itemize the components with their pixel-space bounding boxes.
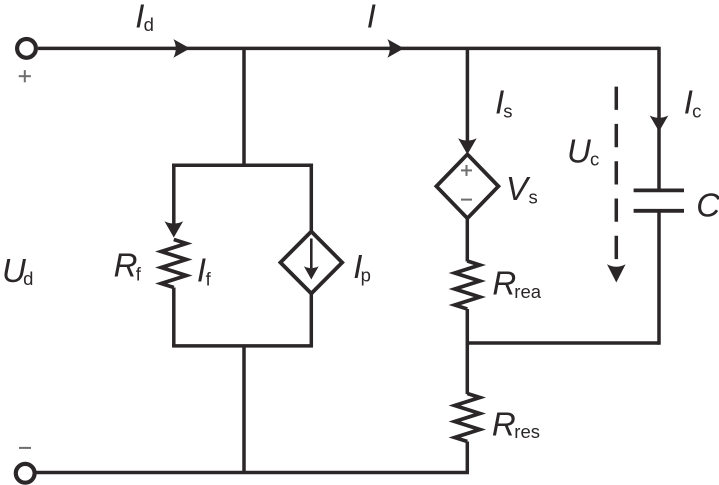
wire Rres bottom	[466, 442, 470, 473]
label - bottom terminal polarity	[19, 447, 31, 449]
wire bottom rail	[36, 471, 469, 475]
svg-text:d: d	[23, 268, 33, 289]
dashed line U_c	[615, 87, 619, 265]
resistor R_f	[161, 240, 186, 288]
wire Ip branch upper	[310, 164, 314, 232]
arrow I_c	[650, 116, 669, 132]
current source I_p inner arrow line	[310, 239, 313, 269]
wire center branch upper	[242, 48, 246, 165]
svg-text:s: s	[529, 187, 538, 208]
wire Ip branch lower	[310, 294, 314, 348]
capacitor C bottom plate	[634, 209, 684, 213]
svg-text:res: res	[514, 421, 540, 442]
wire right branch upper	[657, 47, 661, 191]
current source I_p diamond	[280, 232, 342, 294]
capacitor C top plate	[634, 188, 684, 192]
svg-text:f: f	[206, 269, 212, 290]
svg-text:I: I	[367, 0, 376, 35]
arrow I_f	[165, 221, 184, 237]
svg-text:d: d	[144, 14, 154, 35]
arrow I_s	[458, 138, 477, 154]
svg-text:p: p	[361, 264, 371, 285]
wire horizontal connector	[467, 341, 659, 345]
svg-text:V: V	[506, 170, 531, 207]
label + inside Vs diamond	[461, 165, 472, 176]
wire parallel bottom bar	[172, 344, 313, 348]
svg-text:R: R	[114, 247, 138, 284]
label - inside Vs diamond	[461, 199, 472, 201]
arrow I_d on top rail	[173, 39, 190, 58]
svg-text:R: R	[492, 405, 516, 442]
arrow head of dashed U_c	[607, 264, 626, 282]
svg-text:rea: rea	[514, 281, 541, 302]
svg-text:C: C	[696, 186, 719, 223]
source V_s diamond	[436, 154, 498, 218]
svg-text:c: c	[590, 149, 599, 170]
wire center branch lower	[242, 346, 246, 473]
svg-text:s: s	[503, 101, 512, 122]
wire Rf branch lower	[172, 288, 176, 348]
wire top rail	[38, 47, 659, 51]
resistor R_rea	[455, 261, 480, 309]
arrow I on top rail	[387, 39, 404, 58]
label + top terminal polarity	[19, 70, 31, 82]
svg-text:R: R	[492, 265, 516, 302]
wire right branch lower	[657, 211, 661, 345]
wire Rf branch upper	[172, 164, 176, 225]
svg-text:f: f	[136, 264, 142, 285]
wire Is branch	[466, 48, 470, 141]
svg-text:U: U	[567, 132, 591, 169]
wire parallel top bar	[172, 163, 313, 167]
terminal T2 bottom-left	[16, 464, 35, 483]
wire Rrea to Rres	[466, 309, 470, 394]
resistor R_res	[455, 394, 480, 442]
terminal T1 top-left	[17, 39, 36, 58]
arrow I_p inside diamond	[304, 266, 319, 279]
wire Vs to Rrea	[466, 218, 470, 261]
svg-text:c: c	[692, 101, 701, 122]
